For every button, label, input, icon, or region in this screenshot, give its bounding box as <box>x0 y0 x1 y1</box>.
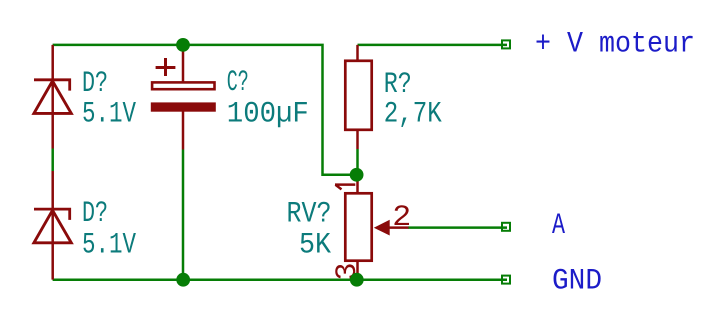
svg-text:5.1V: 5.1V <box>82 229 136 263</box>
resistor R1 top pin <box>356 45 359 61</box>
svg-text:5K: 5K <box>299 229 331 263</box>
svg-text:GND: GND <box>552 265 602 299</box>
potentiometer RV1 pin 2 lead <box>389 226 409 229</box>
capacitor C1 bottom pin <box>182 111 185 150</box>
junction dot bottom rail RV <box>350 273 364 287</box>
zener diode D1 triangle <box>34 81 71 113</box>
resistor R1 body <box>345 61 371 130</box>
zener diode D1 cathode bar with hook <box>34 80 70 91</box>
zener diode D2 triangle <box>34 210 71 243</box>
unconnected pin square +V moteur <box>502 40 510 48</box>
potentiometer RV1 wiper arrow <box>374 220 390 236</box>
svg-text:A: A <box>552 209 565 243</box>
junction dot bottom rail capacitor <box>176 273 190 287</box>
diode D1 pin line through symbol <box>51 45 54 149</box>
wire bottom rail <box>53 278 507 281</box>
capacitor C1 plus sign <box>156 58 176 76</box>
svg-text:5.1V: 5.1V <box>82 98 136 132</box>
resistor R1 bottom pin <box>356 130 359 149</box>
svg-text:100µF: 100µF <box>227 98 309 132</box>
svg-text:2: 2 <box>392 201 411 235</box>
pin number 3 rotated <box>331 262 365 280</box>
svg-text:D?: D? <box>82 67 108 101</box>
svg-text:RV?: RV? <box>287 198 332 232</box>
junction dot resistor RV node <box>350 168 364 182</box>
capacitor C1 top plate hollow <box>152 82 214 89</box>
junction dot top rail capacitor <box>176 38 190 52</box>
svg-text:C?: C? <box>227 66 249 100</box>
zener diode D2 cathode bar with hook <box>34 209 70 220</box>
capacitor C1 top pin <box>182 45 185 82</box>
wire resistor top to +V moteur pin <box>358 44 508 47</box>
diode D2 pin line through symbol <box>51 171 54 280</box>
svg-text:+ V moteur: + V moteur <box>535 28 695 62</box>
potentiometer RV1 body <box>345 193 371 260</box>
unconnected pin square A <box>502 223 510 231</box>
wire left rail green segment between diodes <box>51 149 54 172</box>
pin number 1 rotated <box>335 185 355 190</box>
potentiometer RV1 pin 3 <box>356 261 359 280</box>
wire top rail from left corner to bend down to RV junction <box>53 45 357 175</box>
wire capacitor bottom to bottom rail <box>182 150 185 281</box>
unconnected pin square GND <box>502 276 510 284</box>
wire RV wiper to A pin <box>408 226 507 229</box>
potentiometer RV1 pin 1 <box>356 175 359 193</box>
svg-text:2,7K: 2,7K <box>384 98 442 132</box>
svg-text:D?: D? <box>82 197 108 231</box>
wire resistor bottom to junction <box>356 149 359 175</box>
capacitor C1 bottom plate solid <box>151 102 216 111</box>
